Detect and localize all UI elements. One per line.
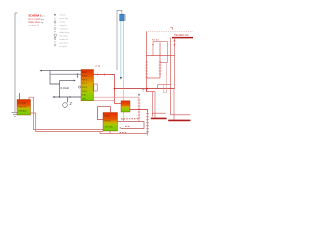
svg-text:U2 reg5: U2 reg5 bbox=[19, 102, 27, 105]
svg-text:PB0 A: PB0 A bbox=[82, 75, 88, 78]
switch S1 (blue box) bbox=[120, 14, 125, 21]
wire long bottom net bbox=[100, 131, 148, 134]
connector P1 pin ladder bbox=[147, 28, 194, 89]
IC U3 (bottom block) bbox=[103, 113, 118, 132]
svg-text:VIN OUT: VIN OUT bbox=[19, 107, 28, 109]
ground GND1 bbox=[12, 112, 19, 116]
svg-text:HEADER 2x5: HEADER 2x5 bbox=[174, 34, 189, 37]
no-connect arrow on J2 top bbox=[138, 93, 140, 95]
legend symbol column bbox=[54, 14, 57, 46]
grey wire from S1 down to pin row bbox=[122, 21, 124, 120]
connector J2 pin column bbox=[138, 97, 141, 121]
clock oscillator Y1 bbox=[63, 103, 73, 108]
svg-text:MCU1: MCU1 bbox=[82, 72, 87, 74]
svg-text:cfg: cfg bbox=[41, 22, 43, 24]
resistor R5 with label bbox=[152, 42, 167, 63]
wire into U4 bbox=[115, 103, 122, 105]
connector J3 pin column bbox=[146, 113, 149, 136]
wire loop net right of U3 bbox=[118, 122, 145, 129]
svg-text:GND: GND bbox=[82, 98, 87, 100]
svg-text:ground net: ground net bbox=[60, 41, 69, 44]
svg-text:8pin: 8pin bbox=[41, 19, 44, 21]
svg-text:PB4 E: PB4 E bbox=[82, 91, 88, 93]
wire crystal net to U1 left pins bbox=[39, 70, 81, 97]
svg-text:Vcc1: Vcc1 bbox=[41, 16, 45, 18]
svg-text:GNDADJ: GNDADJ bbox=[19, 110, 27, 113]
svg-text:diode clamp: diode clamp bbox=[60, 32, 70, 34]
wire nest right side nets bbox=[152, 63, 174, 121]
wire hook to switch S1 bbox=[117, 10, 122, 70]
wire net A horizontal pale bbox=[94, 96, 140, 98]
regulator U2 (left block) bbox=[17, 100, 31, 116]
grey no-connect at loop end bbox=[120, 127, 122, 129]
wire red into U2 top bbox=[19, 93, 21, 100]
svg-text:R5 4k7: R5 4k7 bbox=[152, 39, 160, 41]
svg-text:PB2 C: PB2 C bbox=[82, 83, 88, 85]
svg-text:U3 drv: U3 drv bbox=[105, 115, 110, 117]
svg-text:resistor: resistor bbox=[60, 21, 66, 24]
red pin text right of U3 bbox=[120, 119, 139, 133]
long grey wire left bbox=[15, 13, 18, 112]
svg-text:crystal osc: crystal osc bbox=[60, 28, 69, 31]
svg-text:power flag: power flag bbox=[60, 18, 68, 20]
title block legend text bbox=[29, 15, 42, 28]
svg-text:XTAL: XTAL bbox=[82, 94, 86, 97]
resistor R3 right of U1 bbox=[94, 84, 97, 91]
svg-text:rev date 14: rev date 14 bbox=[29, 24, 40, 27]
svg-text:led output: led output bbox=[60, 34, 68, 37]
teal wire w/arrow bbox=[120, 21, 122, 77]
svg-text:net port: net port bbox=[60, 14, 67, 17]
svg-text:PB3 D: PB3 D bbox=[82, 87, 88, 89]
wire U4 to J3 bbox=[130, 110, 148, 113]
jumper W1 bottom middle bbox=[151, 113, 167, 118]
svg-text:IN1 IN2: IN1 IN2 bbox=[105, 120, 111, 122]
svg-text:PB1 B: PB1 B bbox=[82, 79, 88, 81]
MCU U1 (center block) bbox=[81, 70, 94, 101]
svg-text:header pin: header pin bbox=[60, 39, 69, 41]
wire net B pale bbox=[94, 100, 115, 102]
grey tick left of junction bbox=[142, 90, 145, 91]
svg-text:capacitor: capacitor bbox=[60, 24, 68, 27]
wire U2 right to long pair bbox=[29, 97, 103, 131]
svg-text:test point: test point bbox=[60, 45, 68, 48]
wire U1 right pin to node bbox=[94, 73, 115, 103]
IC U4 (small block right-center) bbox=[121, 101, 130, 112]
inversion bubble on U1 left pin bbox=[78, 86, 80, 88]
jumper W2 bottom right bbox=[168, 38, 190, 121]
pink stub right of S1 bbox=[125, 14, 127, 21]
wire bracket net to U3 pins bbox=[98, 107, 111, 120]
svg-text:Main shee: Main shee bbox=[29, 21, 41, 24]
connector J1 pin columns and wires bbox=[145, 32, 174, 92]
wire net VCC horizontal with junctions bbox=[114, 88, 175, 90]
svg-text:0.01uF: 0.01uF bbox=[61, 86, 70, 90]
wire XTAL net U1 bottom bbox=[52, 96, 81, 102]
svg-text:OUT GND: OUT GND bbox=[105, 126, 114, 128]
